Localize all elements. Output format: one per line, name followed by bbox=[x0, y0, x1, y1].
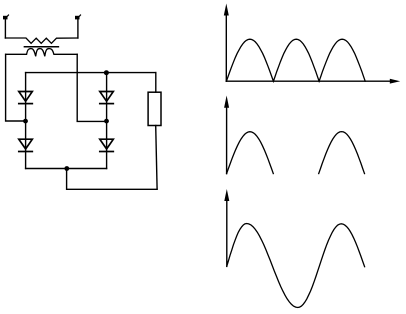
diode D4 bbox=[100, 139, 114, 151]
input terminal left bbox=[3, 15, 9, 19]
wire: right terminal to primary bbox=[77, 20, 79, 39]
transformer T1 core bbox=[24, 46, 58, 48]
wire: right branch vertical bbox=[106, 73, 108, 169]
wire: top rail (+ output node) bbox=[26, 72, 156, 74]
node A junction dot (left mid) bbox=[23, 119, 28, 124]
diode D3 bbox=[100, 92, 114, 104]
input terminal right bbox=[75, 15, 81, 19]
plot 2 curve: half-wave hump 2 bbox=[319, 132, 365, 174]
resistor R load bbox=[148, 92, 161, 125]
node B junction dot (right mid) bbox=[104, 119, 109, 124]
wire: left branch vertical bbox=[25, 73, 27, 169]
plot 3 curve: sine wave bbox=[227, 224, 365, 308]
wire: bottom node down and right to load bbox=[67, 169, 158, 190]
wire: secondary right end down to node B bbox=[77, 54, 106, 121]
wire: resistor bottom to output loop bbox=[156, 126, 157, 189]
plot 1 y-axis bbox=[224, 4, 229, 82]
wire: left terminal to primary bbox=[4, 20, 6, 39]
wire: bottom rail (- output node) bbox=[26, 168, 107, 170]
plot 2 y-axis bbox=[224, 96, 229, 174]
diode D2 bbox=[19, 139, 33, 151]
node C junction dot (top rail) bbox=[104, 70, 109, 75]
plot 3 y-axis bbox=[224, 189, 229, 266]
wire: secondary left end down to node A bbox=[6, 54, 26, 121]
node D junction dot (bottom rail) bbox=[64, 166, 69, 171]
plot 2 curve: half-wave hump 1 bbox=[227, 132, 274, 174]
wire: top rail down to resistor bbox=[155, 73, 157, 93]
diode D1 bbox=[19, 92, 33, 104]
transformer T1 secondary winding bbox=[6, 49, 78, 57]
plot 1 x-axis bbox=[226, 79, 400, 84]
plot 1 curve: full-wave rectified sine bbox=[226, 39, 365, 81]
transformer T1 primary winding bbox=[5, 38, 78, 43]
